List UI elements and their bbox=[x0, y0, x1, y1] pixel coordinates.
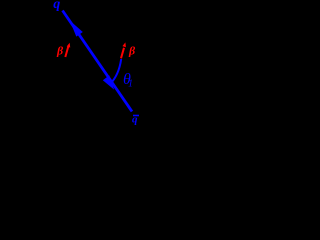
wire qqbar axis bbox=[63, 11, 133, 112]
arrowhead toward q (up-left) bbox=[70, 21, 83, 37]
svg-text:1: 1 bbox=[128, 79, 133, 90]
vector arrow right bbox=[121, 48, 124, 59]
qbar overbar bbox=[133, 115, 139, 117]
arrowhead toward qbar (down-right) bbox=[103, 75, 114, 89]
vector arrow left bbox=[65, 47, 68, 58]
angle arc theta1 bbox=[110, 59, 121, 84]
svg-text:q: q bbox=[53, 0, 60, 12]
svg-text:β: β bbox=[128, 43, 136, 57]
svg-text:β: β bbox=[56, 43, 64, 57]
